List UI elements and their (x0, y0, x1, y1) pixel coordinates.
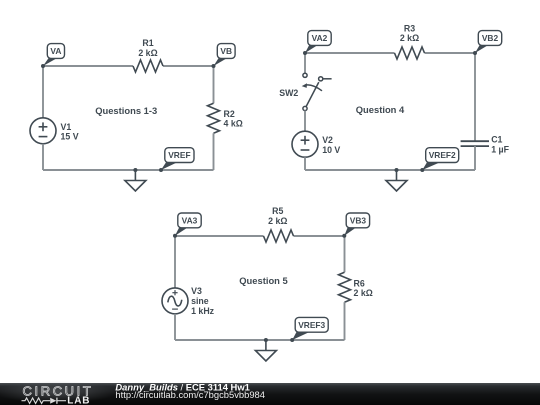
node label VA (43, 44, 65, 66)
wire VA3 to R5 (175, 235, 264, 237)
svg-text:10 V: 10 V (322, 145, 340, 155)
logo glow (0, 381, 118, 403)
svg-text:VREF3: VREF3 (298, 320, 325, 330)
svg-text:1 kHz: 1 kHz (191, 306, 215, 316)
svg-text:V3: V3 (191, 286, 202, 296)
svg-text:2 kΩ: 2 kΩ (138, 48, 157, 58)
node label VREF (161, 148, 194, 170)
svg-text:VA: VA (50, 46, 61, 56)
ground circuit 1 (125, 170, 146, 191)
wire R2 to bottom (213, 133, 215, 170)
wire R1 to VB (163, 65, 214, 67)
wire switch to V2 (304, 111, 306, 132)
junction ground circuit 1 (133, 168, 137, 172)
svg-text:sine: sine (191, 296, 209, 306)
svg-text:VA2: VA2 (312, 33, 328, 43)
svg-text:Question 5: Question 5 (239, 275, 287, 286)
CircuitLab logo diode (50, 398, 56, 404)
wire R3 to VB2 (425, 52, 476, 54)
node VREF dot (159, 168, 163, 172)
svg-text:VB3: VB3 (350, 215, 367, 225)
svg-text:R5: R5 (272, 206, 283, 216)
node VA2 dot (303, 51, 307, 55)
svg-text:VREF2: VREF2 (429, 150, 456, 160)
node label VA3 (175, 213, 201, 236)
node VREF3 dot (290, 338, 294, 342)
svg-text:2 kΩ: 2 kΩ (354, 288, 373, 298)
svg-text:R3: R3 (404, 23, 415, 33)
wire V3 to bottom (174, 314, 176, 340)
wire VA to V1 (42, 66, 44, 118)
junction ground circuit 3 (264, 338, 268, 342)
node label VA2 (305, 31, 331, 53)
node label VB2 (475, 31, 502, 53)
svg-text:VB2: VB2 (482, 33, 499, 43)
wire VB3 to R6 (344, 236, 346, 272)
svg-text:V2: V2 (322, 135, 333, 145)
svg-text:VB: VB (220, 46, 232, 56)
capacitor C1 (461, 141, 489, 146)
wire VA to R1 (43, 65, 133, 67)
svg-text:15 V: 15 V (61, 132, 79, 142)
svg-text:R1: R1 (142, 38, 153, 48)
voltage source V2 (292, 131, 318, 157)
wire bottom circuit 1 (43, 169, 214, 171)
switch SW2 (302, 73, 332, 110)
svg-text:2 kΩ: 2 kΩ (400, 33, 419, 43)
ground circuit 2 (386, 170, 407, 191)
svg-text:C1: C1 (491, 135, 502, 145)
resistor R3 (395, 47, 425, 59)
node label VB3 (344, 213, 369, 236)
node VB dot (212, 64, 216, 68)
resistor R6 (339, 272, 351, 302)
voltage source V1 (30, 118, 56, 144)
node label VREF2 (422, 148, 458, 170)
svg-text:VREF: VREF (168, 150, 190, 160)
node VB3 dot (342, 234, 346, 238)
wire C1 to bottom (474, 146, 476, 170)
svg-text:http://circuitlab.com/c7bgcb5v: http://circuitlab.com/c7bgcb5vbb984 (115, 389, 265, 400)
voltage source V3 sine (162, 288, 188, 314)
node label VREF3 (292, 317, 328, 340)
svg-text:Questions 1-3: Questions 1-3 (95, 105, 157, 116)
node VB2 dot (473, 51, 477, 55)
wire V2 to bottom (304, 157, 306, 170)
resistor R5 (264, 230, 294, 242)
resistor R1 (133, 60, 163, 72)
svg-text:SW2: SW2 (279, 88, 298, 98)
ground circuit 3 (255, 340, 276, 361)
svg-text:1 µF: 1 µF (491, 144, 509, 154)
wire VB2 to C1 (474, 53, 476, 141)
junction ground circuit 2 (395, 168, 399, 172)
wire bottom circuit 3 (175, 339, 345, 341)
wire R5 to VB3 (294, 235, 345, 237)
wire VA2 to switch (304, 53, 306, 73)
svg-text:VA3: VA3 (182, 215, 198, 225)
svg-text:V1: V1 (61, 122, 72, 132)
node VREF2 dot (420, 168, 424, 172)
node VA dot (41, 64, 45, 68)
wire bottom circuit 2 (305, 169, 475, 171)
CircuitLab logo resistor zigzag (22, 398, 51, 404)
wire R6 to bottom (344, 302, 346, 340)
wire VA3 to V3 (174, 236, 176, 288)
svg-text:Question 4: Question 4 (356, 104, 405, 115)
svg-text:R2: R2 (224, 109, 235, 119)
svg-text:LAB: LAB (67, 395, 90, 405)
svg-text:2 kΩ: 2 kΩ (268, 216, 287, 226)
svg-text:4 kΩ: 4 kΩ (224, 119, 243, 129)
wire VA2 to R3 (305, 52, 395, 54)
wire V1 to bottom (42, 144, 44, 170)
resistor R2 (208, 103, 220, 133)
wire VB to R2 (213, 66, 215, 103)
node label VB (214, 44, 236, 66)
svg-text:R6: R6 (354, 278, 365, 288)
node VA3 dot (173, 234, 177, 238)
